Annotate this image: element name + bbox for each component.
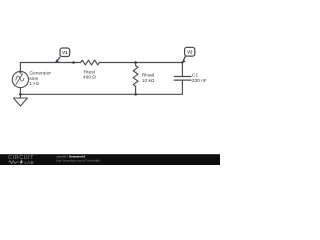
svg-text:499 Ω: 499 Ω [83,75,96,81]
svg-text:C1: C1 [192,73,198,79]
svg-text:1 Hz: 1 Hz [29,81,39,87]
svg-text:Generator: Generator [29,70,51,76]
svg-text:Rload: Rload [142,72,155,78]
svg-text:Rtest: Rtest [84,69,96,75]
svg-text:330 nF: 330 nF [192,78,207,84]
svg-text:V2: V2 [187,50,193,55]
svg-text:10 kΩ: 10 kΩ [142,78,155,84]
svg-text:http://circuitlab.com/c/7hx3y4: http://circuitlab.com/c/7hx3y4qk9 [56,158,100,162]
svg-text:LAB: LAB [25,160,34,165]
svg-text:V1: V1 [62,50,68,55]
